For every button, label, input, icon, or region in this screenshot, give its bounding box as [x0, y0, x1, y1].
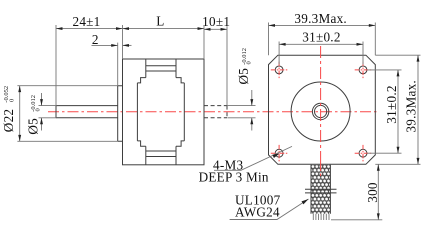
dim 24±1 extension line left: [55, 25, 57, 106]
dim 10±1 extension line at rear shaft end: [226, 26, 228, 105]
dim Ø22: extension/edge lines: [17, 86, 117, 142]
dim extension line at body rear face: [203, 26, 205, 60]
face plate (front view square with chamfered corners): [269, 55, 376, 164]
leader arrowhead UL1007: [301, 197, 309, 204]
mounting hole bottom-left: [275, 149, 283, 157]
vertical centerline over cable (red): [320, 162, 322, 179]
dim 39.3Max right: extension lines: [375, 55, 420, 164]
dim 31±0.2 right: extension lines: [367, 70, 401, 153]
wire: main horizontal centerline (red dash-dot): [48, 111, 378, 113]
dim Ø5 rear arrow top: [251, 90, 253, 106]
stator step top-left: [137, 78, 145, 83]
dim 2 arrow left: [92, 44, 118, 46]
dim Ø5 rear arrow bottom: [251, 118, 253, 131]
svg-text:L: L: [156, 13, 164, 28]
stator step bottom-left: [137, 141, 145, 146]
dim Ø5 front: extension lines: [39, 106, 57, 118]
individual lead wires: [313, 214, 329, 220]
dim Ø5 front arrow top: [41, 93, 43, 106]
svg-text:-0.012: -0.012: [30, 95, 37, 112]
dim line 300: [377, 164, 379, 220]
dim 300: bottom extension line: [331, 219, 382, 221]
dim text Ø22 -0.052/0 (rotated): [1, 86, 16, 132]
front end-bell narrow section (side view top): [146, 59, 176, 78]
svg-text:31±0.2: 31±0.2: [302, 29, 340, 44]
pilot boss (side view): [118, 86, 123, 142]
vertical centerline (red dash-dot): [320, 46, 322, 162]
stator step bottom-right: [176, 141, 184, 146]
leader for UL1007/AWG24 (to cable): [230, 199, 309, 220]
svg-text:Ø5: Ø5: [26, 118, 41, 135]
svg-text:10±1: 10±1: [202, 14, 230, 29]
dim 31±0.2 top: extension lines: [279, 42, 363, 65]
rear end-bell narrow section (side view bottom): [146, 146, 176, 165]
shaft (side view): [56, 106, 118, 118]
svg-text:-0.052: -0.052: [3, 86, 10, 103]
dim text Ø5 -0.012/0 rear (rotated): [236, 48, 253, 84]
mounting hole top-left: [275, 66, 283, 74]
crosshair top-right (red): [355, 62, 372, 79]
svg-text:24±1: 24±1: [72, 14, 100, 29]
shaft hub circle (front view): [312, 103, 328, 119]
svg-text:DEEP 3 Min: DEEP 3 Min: [199, 170, 269, 185]
svg-text:31±0.2: 31±0.2: [384, 85, 399, 123]
stator step top-right: [176, 78, 184, 83]
pilot circle Ø22 (front view): [291, 82, 350, 141]
dim line 39.3Max top: [269, 24, 376, 26]
leader for 4-M3 (to mounting hole): [214, 146, 292, 170]
crosshair top-left (red): [271, 62, 288, 79]
mounting hole bottom-right: [359, 149, 367, 157]
stator lamination stack sides: [137, 83, 184, 141]
svg-text:39.3Max.: 39.3Max.: [404, 80, 419, 133]
cable edges: [311, 165, 330, 214]
shaft circle Ø5 (front view): [315, 105, 327, 117]
dim 2 arrow right: [123, 44, 132, 46]
dim line L: [123, 28, 205, 30]
rear shaft hidden (dashed): [204, 106, 227, 118]
dim 2 extension line at boss face: [117, 43, 119, 86]
svg-text:Ø22: Ø22: [1, 109, 16, 132]
dim line 24±1: [56, 28, 123, 30]
dim extension line at body front face: [122, 25, 124, 59]
crosshair bottom-right (red): [355, 145, 372, 162]
svg-text:300: 300: [365, 182, 380, 203]
dim line Ø22: [19, 86, 21, 142]
svg-text:AWG24: AWG24: [235, 204, 280, 219]
dim line 39.3Max right: [417, 55, 419, 164]
svg-text:39.3Max.: 39.3Max.: [294, 11, 347, 26]
svg-text:Ø5: Ø5: [236, 68, 251, 85]
svg-text:2: 2: [92, 32, 99, 47]
dim line 31±0.2 right: [397, 70, 399, 153]
lead-wire cable braid: [311, 165, 330, 214]
dim line 10±1: [204, 28, 227, 30]
leader arrowhead 4-M3: [272, 152, 280, 158]
dim Ø5 rear: extension lines: [227, 106, 255, 118]
cable tie collar: [305, 189, 337, 193]
dim Ø5 front arrow bottom: [41, 118, 43, 131]
dim line 31±0.2 top: [279, 43, 363, 45]
mounting hole top-right: [359, 66, 367, 74]
dim 39.3Max top: extension lines: [269, 23, 376, 56]
dim text Ø5 -0.012/0 (rotated): [26, 95, 42, 135]
crosshair bottom-left (red): [271, 145, 288, 162]
motor body M1 (side view outer rectangle): [123, 59, 205, 165]
svg-text:-0.012: -0.012: [241, 48, 248, 65]
